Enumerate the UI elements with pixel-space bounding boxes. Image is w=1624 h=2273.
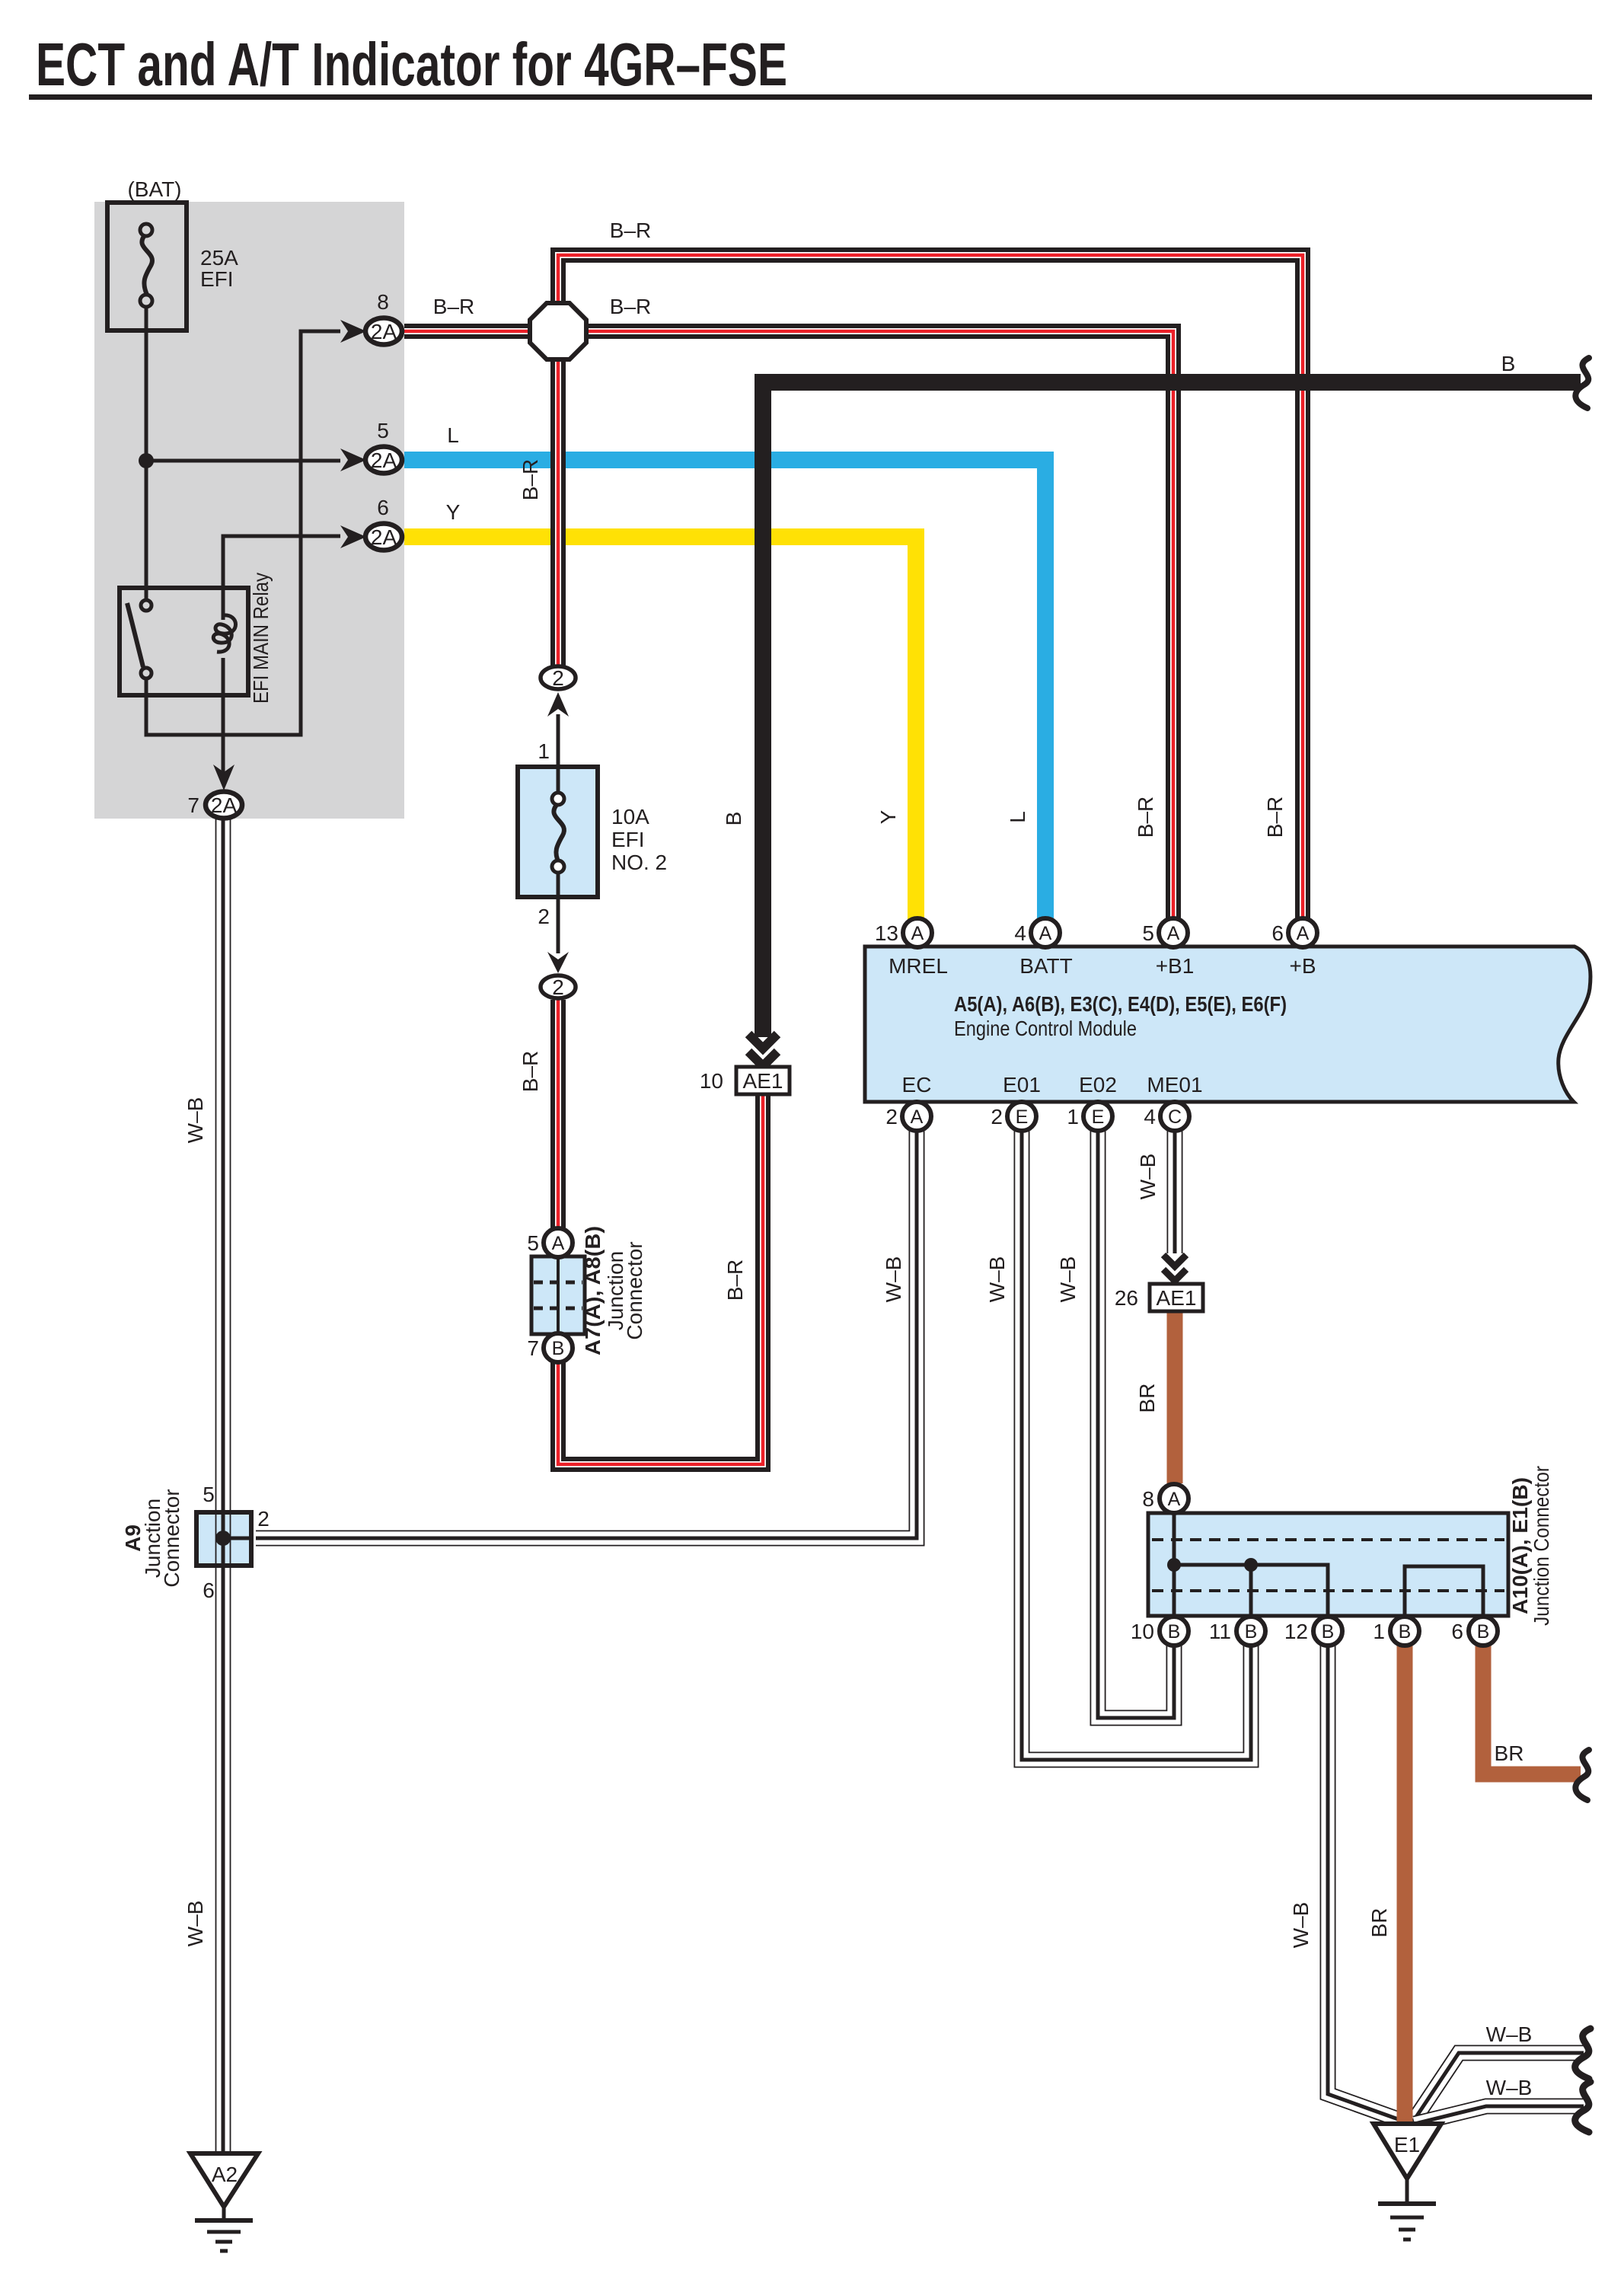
svg-text:10: 10 (700, 1069, 723, 1093)
svg-text:W–B: W–B (183, 1901, 207, 1947)
svg-text:B: B (552, 1338, 565, 1359)
svg-text:ME01: ME01 (1147, 1073, 1202, 1097)
svg-text:+B: +B (1289, 954, 1316, 978)
arrow into pin6 2A (340, 525, 366, 548)
svg-text:MREL: MREL (889, 954, 948, 978)
wire fuse to relay switch (145, 308, 148, 601)
svg-text:5: 5 (377, 419, 389, 442)
svg-text:A5(A), A6(B), E3(C), E4(D), E5: A5(A), A6(B), E3(C), E4(D), E5(E), E6(F) (954, 992, 1287, 1016)
svg-text:2A: 2A (211, 793, 238, 817)
svg-text:B–R: B–R (610, 219, 651, 242)
wire Y yellow pin6 2A to ECM MREL (404, 537, 916, 919)
svg-text:E: E (1092, 1106, 1105, 1128)
svg-text:W–B: W–B (1136, 1154, 1160, 1200)
svg-text:BR: BR (1495, 1741, 1524, 1765)
ECM pin 4C (1160, 1102, 1189, 1131)
svg-text:L: L (1006, 811, 1029, 823)
ECM pin 6A (1288, 918, 1317, 947)
svg-text:Connector: Connector (160, 1489, 183, 1587)
relay switch contacts (141, 600, 152, 611)
svg-text:W–B: W–B (882, 1256, 905, 1303)
svg-text:E: E (1016, 1106, 1029, 1128)
svg-text:A2: A2 (212, 2163, 238, 2186)
svg-text:A: A (911, 923, 924, 944)
wire BR AE1-26 to A10 pin 8A (1167, 1311, 1183, 1483)
fuse 10A EFI NO.2 box (518, 767, 598, 897)
svg-text:Y: Y (876, 809, 900, 824)
svg-text:EFI: EFI (611, 828, 645, 851)
svg-text:(BAT): (BAT) (127, 177, 181, 201)
junction connector A7(A),A8(B) box (531, 1256, 585, 1334)
svg-text:B: B (1501, 352, 1516, 375)
node on battery feed (139, 453, 154, 468)
svg-text:L: L (447, 423, 459, 447)
connector oval 2 lower (541, 975, 576, 998)
svg-text:A: A (1168, 1489, 1181, 1510)
fuse 10A EFI NO.2 element (554, 805, 564, 863)
A7 pin 5A (544, 1228, 573, 1257)
svg-text:5: 5 (1142, 921, 1154, 945)
arrow into pin7 2A (213, 765, 235, 790)
svg-text:Y: Y (446, 500, 461, 524)
wire BR A10 pin 1B to ground E1 (1397, 1646, 1413, 2123)
A10 pin 10B (1160, 1617, 1188, 1646)
arrow into pin5 2A (340, 449, 366, 471)
svg-text:BR: BR (1367, 1908, 1391, 1938)
svg-text:2A: 2A (371, 449, 397, 472)
svg-text:B–R: B–R (518, 1051, 542, 1092)
svg-text:W–B: W–B (1486, 2076, 1533, 2099)
break symbol W-B feed1 (1575, 2029, 1590, 2079)
connector oval 2A pin6 (365, 524, 402, 551)
svg-text:W–B: W–B (183, 1097, 207, 1144)
svg-text:B–R: B–R (518, 459, 542, 500)
wire B-R junction A7 pin 7B to AE1 (558, 1095, 763, 1464)
svg-text:B–R: B–R (1263, 797, 1287, 838)
wire B-R octagon top to ECM +B (558, 255, 1303, 919)
ECM pin 13A (903, 918, 932, 947)
svg-text:E01: E01 (1003, 1073, 1041, 1097)
ground A2 (190, 2153, 258, 2207)
wire W-B ECM EC pin to A9 (256, 1131, 917, 1538)
svg-text:A7(A), A8(B): A7(A), A8(B) (581, 1226, 605, 1355)
svg-text:6: 6 (1271, 921, 1284, 945)
svg-text:10A: 10A (611, 805, 649, 828)
svg-text:B: B (1245, 1621, 1258, 1642)
svg-text:25A: 25A (200, 246, 238, 270)
svg-text:EFI MAIN Relay: EFI MAIN Relay (249, 573, 273, 704)
svg-text:B: B (1322, 1621, 1335, 1642)
svg-text:W–B: W–B (1289, 1902, 1313, 1949)
ECM pin 2A (902, 1102, 931, 1131)
svg-text:B–R: B–R (610, 295, 651, 318)
connector oval 2A pin7 (206, 792, 242, 819)
svg-text:A: A (1167, 923, 1180, 944)
double chevron arrow into AE1-26 (1163, 1255, 1186, 1281)
connector oval 2 upper (541, 666, 576, 689)
wire W-B right feed 2 to ground E1 (1415, 2106, 1584, 2124)
svg-text:13: 13 (875, 921, 898, 945)
wire relay switch to pin8 2A (146, 331, 340, 735)
svg-text:6: 6 (1451, 1620, 1463, 1643)
svg-text:6: 6 (203, 1579, 215, 1602)
svg-text:B: B (722, 812, 745, 826)
octagon junction node (530, 303, 586, 359)
svg-text:6: 6 (377, 496, 389, 519)
wire W-B oval7 to ground A2 (215, 818, 217, 2153)
A10 pin 12B (1313, 1617, 1342, 1646)
svg-text:26: 26 (1115, 1286, 1138, 1310)
svg-text:E1: E1 (1394, 2133, 1420, 2156)
svg-text:11: 11 (1209, 1620, 1231, 1643)
svg-text:EC: EC (902, 1073, 932, 1097)
arrow down into oval 2 lower (547, 952, 569, 973)
title rule (29, 94, 1592, 100)
wire B-R octagon to ECM +B1 (583, 331, 1173, 919)
svg-text:B–R: B–R (433, 295, 474, 318)
A10 pin 1B (1390, 1617, 1419, 1646)
svg-text:BR: BR (1135, 1384, 1159, 1413)
wire W-B ECM E01 pin to A10 pin 11B (1022, 1131, 1251, 1760)
svg-text:5: 5 (203, 1483, 215, 1506)
svg-text:2: 2 (257, 1507, 270, 1531)
svg-text:B: B (1399, 1621, 1412, 1642)
fuse 25A EFI element (142, 235, 152, 295)
ECM pin 5A (1159, 918, 1188, 947)
svg-text:C: C (1168, 1106, 1182, 1128)
wire relay coil to pin6 2A (223, 536, 340, 620)
svg-text:7: 7 (527, 1336, 539, 1360)
svg-text:W–B: W–B (1056, 1256, 1080, 1303)
svg-text:5: 5 (527, 1231, 539, 1255)
AE1-10 box (736, 1067, 790, 1094)
svg-text:8: 8 (1142, 1487, 1154, 1511)
ECM box (Engine Control Module) (865, 947, 1590, 1102)
A7 pin 7B (544, 1333, 573, 1362)
EFI MAIN relay box (120, 588, 248, 695)
wire B thick black to AE1 (763, 382, 1581, 1037)
wire W-B ECM ME01 pin to AE1 (1167, 1131, 1183, 1253)
wire W-B A10 pin 12B to ground E1 (1328, 1645, 1411, 2124)
svg-text:4: 4 (1014, 921, 1026, 945)
svg-text:12: 12 (1284, 1620, 1308, 1643)
ECM pin 2E (1007, 1102, 1036, 1131)
svg-text:2: 2 (552, 666, 564, 690)
svg-text:4: 4 (1144, 1105, 1156, 1129)
wire L blue pin5 2A to ECM BATT (404, 460, 1045, 919)
svg-text:2A: 2A (371, 320, 397, 343)
A10 internal bus 8A-10B-11B-12B (1173, 1513, 1176, 1616)
svg-text:1: 1 (538, 739, 550, 763)
wire junction to pin5 2A (146, 459, 340, 463)
double chevron arrow B into AE1-10 (748, 1034, 777, 1066)
wire thin fuse10A to pin2 (557, 872, 560, 953)
break symbol BR wire (1575, 1750, 1589, 1800)
junction connector A9 box (196, 1512, 251, 1566)
svg-text:A: A (1039, 923, 1052, 944)
svg-text:E02: E02 (1079, 1073, 1117, 1097)
wire thin pin1 to fuse10A (557, 714, 560, 793)
wire relay coil to pin7 2A (222, 658, 225, 775)
svg-text:EFI: EFI (200, 267, 234, 291)
fuse 25A EFI box (107, 203, 187, 330)
svg-text:2: 2 (552, 975, 564, 999)
wire B-R oval 2 to junction A7 pin 5A (550, 1000, 566, 1229)
connector oval 2A pin8 (365, 318, 402, 345)
svg-text:A: A (911, 1106, 924, 1128)
A9 node (215, 1531, 231, 1546)
svg-text:Junction Connector: Junction Connector (1530, 1466, 1553, 1626)
arrow into pin8 2A (340, 320, 366, 343)
svg-text:B: B (1168, 1621, 1181, 1642)
A10 pin 11B (1236, 1617, 1265, 1646)
AE1-26 box (1150, 1284, 1203, 1311)
break symbol B wire (1575, 358, 1589, 408)
junction connector A10(A),E1(B) box (1148, 1513, 1508, 1616)
svg-text:A10(A), E1(B): A10(A), E1(B) (1508, 1477, 1532, 1614)
svg-text:8: 8 (377, 290, 389, 314)
svg-text:A: A (552, 1233, 565, 1254)
ECM pin 4A (1031, 918, 1060, 947)
svg-text:AE1: AE1 (1157, 1286, 1197, 1310)
svg-text:2A: 2A (371, 525, 397, 549)
connector oval 2A pin5 (365, 447, 402, 474)
svg-text:AE1: AE1 (743, 1069, 783, 1093)
svg-text:2: 2 (991, 1105, 1003, 1129)
wire B-R octagon bottom to oval 2 (550, 356, 566, 666)
wire W-B ECM E02 pin to A10 pin 10B (1098, 1131, 1174, 1718)
ECM pin 1E (1083, 1102, 1112, 1131)
A10 internal bracket 1B-6B (1405, 1566, 1483, 1616)
svg-text:BATT: BATT (1019, 954, 1072, 978)
A10 pin 8A (1160, 1484, 1188, 1513)
svg-text:1: 1 (1373, 1620, 1385, 1643)
svg-text:A: A (1297, 923, 1310, 944)
wire B-R pin8 2A to octagon junction (404, 324, 533, 339)
svg-text:2: 2 (885, 1105, 898, 1129)
arrow up into oval 2 (547, 692, 569, 717)
A10 pin 6B (1469, 1617, 1498, 1646)
relay coil (213, 615, 235, 652)
svg-text:10: 10 (1131, 1620, 1154, 1643)
svg-text:2: 2 (538, 905, 550, 928)
relay/fuse area gray panel (94, 202, 404, 819)
break symbol W-B feed2 (1575, 2082, 1590, 2132)
svg-text:W–B: W–B (985, 1256, 1009, 1303)
svg-text:7: 7 (187, 793, 199, 817)
relay switch blade (127, 603, 143, 667)
svg-text:Connector: Connector (623, 1241, 646, 1339)
svg-text:W–B: W–B (1486, 2022, 1533, 2046)
svg-text:B–R: B–R (1134, 797, 1157, 838)
ground E1 (1374, 2124, 1441, 2179)
svg-text:NO. 2: NO. 2 (611, 851, 667, 874)
svg-text:B–R: B–R (723, 1259, 747, 1301)
wire BR A10 pin 6B to right edge (1483, 1646, 1581, 1774)
svg-text:B: B (1477, 1621, 1490, 1642)
svg-text:ECT and A/T Indicator for 4GR–: ECT and A/T Indicator for 4GR–FSE (36, 30, 787, 98)
wire W-B right feed 1 to ground E1 (1413, 2053, 1584, 2121)
svg-text:Engine Control Module: Engine Control Module (954, 1017, 1137, 1040)
svg-text:+B1: +B1 (1156, 954, 1195, 978)
svg-text:1: 1 (1067, 1105, 1079, 1129)
